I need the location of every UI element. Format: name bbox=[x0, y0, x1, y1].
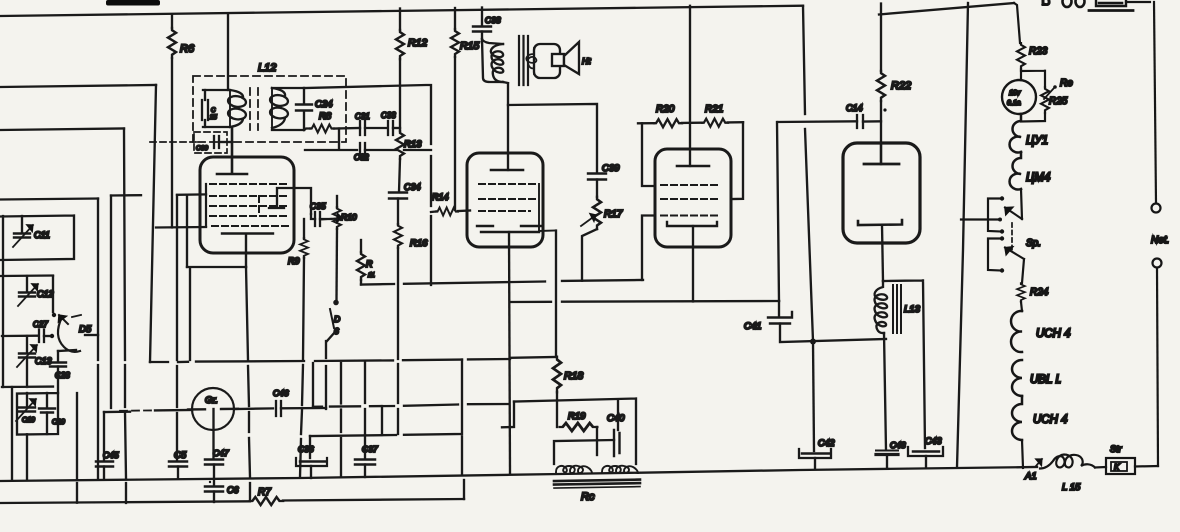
capacitor C12 bbox=[0, 274, 53, 277]
svg-text:R16: R16 bbox=[410, 238, 428, 249]
wire R8 drop bbox=[305, 129, 357, 151]
svg-text:L 15: L 15 bbox=[1062, 482, 1081, 493]
resistor R10 bbox=[336, 196, 338, 207]
svg-text:C19: C19 bbox=[22, 417, 35, 424]
coil L12 secondary bbox=[272, 88, 304, 130]
wire grid leak bbox=[361, 280, 643, 285]
svg-text:L12: L12 bbox=[258, 62, 276, 74]
tube V2 grids bbox=[479, 184, 537, 211]
tube V1 cathode bbox=[222, 234, 273, 268]
svg-text:C36: C36 bbox=[298, 444, 314, 454]
capacitor C35 bbox=[315, 212, 320, 226]
tube V3 grids bbox=[661, 185, 717, 216]
capacitor C41 bbox=[778, 301, 780, 317]
svg-text:11: 11 bbox=[368, 272, 375, 279]
wire right B drop bbox=[957, 3, 968, 467]
resistor R19 bbox=[556, 401, 558, 427]
capacitor C32 bbox=[360, 143, 365, 157]
svg-text:R20: R20 bbox=[656, 104, 675, 115]
heater winding UCH4 a bbox=[1011, 311, 1022, 352]
wire mid horizontal bbox=[313, 404, 509, 407]
capacitor C31 bbox=[360, 121, 365, 135]
capacitor C42 bbox=[813, 342, 814, 452]
svg-text:C39: C39 bbox=[602, 163, 620, 174]
fuse Str box bbox=[1106, 458, 1135, 474]
tube V4 rectifier envelope bbox=[843, 143, 920, 243]
svg-text:C12: C12 bbox=[37, 289, 54, 299]
black blob top left bbox=[106, 0, 160, 6]
capacitor C11 box bbox=[0, 216, 74, 261]
svg-text:ЦМ4: ЦМ4 bbox=[1026, 172, 1050, 184]
svg-text:D: D bbox=[334, 314, 340, 324]
svg-text:C37: C37 bbox=[362, 444, 378, 454]
svg-text:C35: C35 bbox=[310, 201, 326, 211]
tube V1 anode bbox=[217, 128, 247, 174]
svg-text:C31: C31 bbox=[355, 112, 370, 121]
wire vertical x111 bbox=[110, 196, 112, 409]
transformer output primary bbox=[482, 39, 503, 82]
wire avc riser c36 line bbox=[310, 360, 462, 474]
svg-text:C5: C5 bbox=[174, 450, 187, 461]
svg-text:C27: C27 bbox=[33, 320, 48, 329]
svg-text:Sp.: Sp. bbox=[1026, 238, 1041, 249]
switch D5 bbox=[58, 317, 80, 352]
tube V4 anode bbox=[864, 163, 899, 166]
heater winding UBL1 bbox=[1012, 360, 1022, 396]
terminal net 2 bbox=[1153, 259, 1162, 268]
svg-text:R25: R25 bbox=[1049, 96, 1068, 107]
wire L13 top branch bbox=[883, 280, 925, 448]
top rail right segment bbox=[879, 3, 1014, 15]
tube V1 mixer envelope bbox=[200, 157, 294, 253]
svg-text:R9: R9 bbox=[288, 256, 300, 266]
heater winding UCH4 b bbox=[1012, 396, 1022, 440]
svg-text:C42: C42 bbox=[818, 438, 835, 448]
svg-text:R15: R15 bbox=[460, 40, 479, 52]
tube V2 anode bbox=[491, 169, 523, 172]
wire grid line B bbox=[111, 194, 206, 195]
svg-text:R7: R7 bbox=[258, 487, 271, 498]
tube V4 cathode bbox=[858, 220, 902, 225]
wire line4 bbox=[0, 129, 124, 131]
svg-text:C14: C14 bbox=[846, 103, 863, 113]
resistor R24 bbox=[1017, 283, 1025, 302]
wire Rc inner bbox=[554, 440, 614, 464]
wire tube1 grid drop bbox=[186, 196, 188, 267]
svg-text:C47: C47 bbox=[213, 448, 229, 458]
capacitor C33 bbox=[388, 121, 393, 135]
svg-text:C33: C33 bbox=[381, 111, 396, 120]
svg-text:R19: R19 bbox=[568, 411, 586, 422]
rail 2 (antenna) bbox=[0, 85, 156, 87]
svg-text:R17: R17 bbox=[604, 209, 623, 220]
svg-text:C13: C13 bbox=[35, 356, 52, 366]
resistor R11 bbox=[360, 240, 362, 252]
svg-text:Net.: Net. bbox=[1151, 235, 1169, 246]
svg-text:C29: C29 bbox=[52, 419, 65, 426]
top right rectifier marks bbox=[1043, 0, 1049, 5]
switch D6 bbox=[334, 301, 337, 304]
tube V2 output envelope bbox=[467, 153, 543, 247]
capacitor C5 bbox=[169, 462, 187, 467]
capacitor C43 bbox=[913, 450, 939, 453]
svg-text:R: R bbox=[366, 259, 373, 269]
wire R18 tap bbox=[511, 356, 556, 359]
svg-text:18v: 18v bbox=[1009, 90, 1021, 97]
wire heater feed bbox=[1014, 3, 1020, 43]
resistor R7 bbox=[250, 497, 283, 505]
svg-text:Gr.: Gr. bbox=[205, 395, 218, 406]
capacitor C36 bbox=[309, 436, 311, 458]
svg-text:A1: A1 bbox=[1024, 471, 1037, 482]
svg-text:ЦУ1: ЦУ1 bbox=[1026, 135, 1048, 147]
plate bus bbox=[511, 301, 779, 302]
tube V1 grids bbox=[210, 184, 288, 226]
capacitor C6 bbox=[205, 487, 223, 492]
resistor R16 bbox=[394, 224, 402, 248]
wire Gr bottom bbox=[212, 409, 214, 459]
capacitor C34 bbox=[389, 193, 407, 199]
svg-text:C45: C45 bbox=[103, 450, 119, 460]
svg-text:C32: C32 bbox=[354, 153, 369, 162]
inductor L13 bbox=[875, 281, 888, 333]
wire grid3 feed bbox=[156, 226, 206, 229]
svg-text:UCH 4: UCH 4 bbox=[1033, 414, 1068, 426]
wire screen feed drop bbox=[176, 195, 178, 460]
svg-text:C41: C41 bbox=[744, 321, 761, 332]
svg-text:R8: R8 bbox=[319, 111, 332, 122]
wire B+ drop x807 bbox=[803, 6, 813, 341]
wire R20 left drop / grid3 bbox=[642, 123, 655, 280]
wire top to L12 coil1 bbox=[227, 15, 229, 90]
tube V2 grid1 tie bbox=[539, 184, 556, 231]
wire R10 down bbox=[335, 229, 338, 300]
transformer core bbox=[519, 36, 528, 85]
wire rail B riser bbox=[463, 480, 465, 499]
coil L12 primary bbox=[203, 90, 230, 127]
svg-text:0.1a: 0.1a bbox=[1007, 100, 1021, 107]
svg-text:R21: R21 bbox=[705, 104, 723, 115]
AVC bus bbox=[150, 359, 510, 362]
capacitor C39 bbox=[588, 174, 606, 180]
resistor R12 bbox=[399, 9, 401, 31]
junction A1 bbox=[1036, 459, 1042, 466]
svg-text:R18: R18 bbox=[564, 370, 583, 382]
capacitor C19 box bbox=[17, 393, 58, 435]
gramophone line bbox=[120, 409, 155, 411]
inductor L15 bbox=[1040, 455, 1095, 469]
wire below boxes bbox=[26, 434, 28, 479]
fuse box bbox=[1096, 0, 1126, 6]
svg-text:C34: C34 bbox=[404, 182, 421, 192]
resistor R18 bbox=[553, 357, 561, 392]
tube V1 side electrode bbox=[269, 188, 311, 214]
resistor R23 bbox=[1017, 43, 1025, 69]
svg-text:C11: C11 bbox=[34, 230, 50, 240]
capacitor C28 bbox=[58, 350, 76, 351]
svg-text:L13: L13 bbox=[904, 304, 921, 315]
wire line4 vertical down to rail B bbox=[124, 129, 126, 504]
svg-text:C30: C30 bbox=[196, 145, 208, 152]
capacitor C38 bbox=[481, 8, 483, 27]
wire R21 right drop / grid2 bbox=[731, 122, 743, 199]
resistor R15 bbox=[454, 8, 456, 29]
wire Rc box top bbox=[514, 399, 636, 465]
capacitor C47 bbox=[205, 460, 223, 465]
svg-text:Re: Re bbox=[1060, 78, 1073, 89]
svg-text:C6: C6 bbox=[227, 485, 239, 495]
node B+ junction bbox=[810, 339, 816, 345]
transformer Rc bbox=[556, 466, 592, 473]
resistors R20 R21 line bbox=[638, 122, 743, 123]
wire grid line A bbox=[0, 199, 98, 200]
svg-text:R10: R10 bbox=[341, 212, 357, 222]
svg-text:R12: R12 bbox=[408, 37, 427, 49]
svg-text:Str: Str bbox=[1110, 444, 1123, 454]
wire rail2 corner down bbox=[150, 85, 156, 362]
capacitor C14 bbox=[857, 115, 863, 128]
svg-text:Ht: Ht bbox=[582, 56, 591, 66]
capacitor C25 bbox=[204, 90, 206, 127]
capacitor C24 bbox=[303, 88, 305, 130]
svg-text:C40: C40 bbox=[607, 413, 625, 424]
svg-text:C24: C24 bbox=[315, 99, 332, 110]
ground rail B bbox=[0, 501, 250, 503]
capacitor C13 bbox=[26, 336, 28, 353]
resistor R13 bbox=[396, 131, 404, 159]
tube V2 cathode bbox=[477, 226, 541, 232]
tube V3 detector envelope bbox=[655, 149, 731, 247]
coil L12 dashed box bbox=[193, 76, 346, 142]
svg-text:C48: C48 bbox=[890, 440, 906, 450]
capacitor C37 bbox=[364, 435, 366, 459]
svg-text:C43: C43 bbox=[925, 436, 942, 446]
svg-text:C: C bbox=[211, 108, 216, 114]
potentiometer R17 bbox=[593, 197, 601, 229]
capacitor C29 trimmer bbox=[46, 393, 48, 408]
ground bus rail A bbox=[0, 467, 1037, 481]
svg-text:R6: R6 bbox=[180, 43, 195, 55]
wire output line to tone control bbox=[508, 104, 597, 173]
wire left edge vertical bbox=[2, 216, 4, 387]
svg-text:R24: R24 bbox=[1030, 287, 1049, 298]
svg-text:K: K bbox=[1114, 463, 1120, 472]
wire tank2 feed to R12 line bbox=[304, 85, 431, 285]
switch Sp bbox=[988, 199, 1001, 232]
gramophone Gr. bbox=[192, 388, 234, 430]
wire anode feed from rail bbox=[689, 6, 691, 166]
wire V1 cathode return bbox=[187, 267, 246, 360]
svg-text:R23: R23 bbox=[1029, 46, 1048, 57]
wire vertical x98 bbox=[97, 199, 99, 480]
mains wire bbox=[1157, 268, 1158, 466]
wire R6 down to rail A bbox=[171, 58, 173, 228]
switch Re arrow bbox=[1053, 85, 1057, 89]
svg-text:R14: R14 bbox=[432, 192, 449, 202]
terminal net 1 bbox=[1152, 204, 1161, 213]
capacitor C45 bbox=[104, 411, 130, 414]
heater winding UY1 bbox=[1010, 114, 1021, 153]
capacitor C48 bbox=[884, 333, 886, 450]
top rail B+ bbox=[0, 6, 803, 16]
wire C14 line bbox=[777, 121, 857, 301]
tube V3 cathode bbox=[667, 222, 717, 226]
resistor R25 branch bbox=[1021, 71, 1045, 87]
svg-text:D5: D5 bbox=[79, 324, 92, 335]
resistor R6 bbox=[171, 15, 173, 28]
capacitor C30 bbox=[150, 132, 227, 153]
heater winding UM4 bbox=[1010, 152, 1021, 189]
svg-text:UBL I.: UBL I. bbox=[1030, 374, 1062, 386]
svg-text:UCH 4: UCH 4 bbox=[1036, 328, 1071, 340]
svg-text:R13: R13 bbox=[404, 139, 422, 150]
resistor R9 bbox=[303, 219, 305, 238]
svg-text:Rc: Rc bbox=[581, 491, 595, 503]
wire C46 riser bbox=[325, 341, 327, 409]
svg-text:25: 25 bbox=[209, 115, 217, 121]
svg-text:C46: C46 bbox=[273, 388, 289, 398]
tube V3 anode bbox=[677, 165, 709, 168]
capacitor C46 bbox=[276, 401, 281, 416]
svg-text:C38: C38 bbox=[485, 15, 501, 25]
lamp 18v bbox=[1002, 80, 1036, 114]
resistor R22 bbox=[880, 4, 882, 72]
svg-text:R22: R22 bbox=[891, 80, 911, 92]
speaker bbox=[534, 44, 560, 78]
